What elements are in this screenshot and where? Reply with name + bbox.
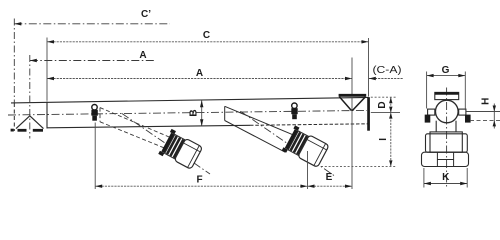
discharge deflector V left leg (16, 116, 30, 129)
bracket 2 ring (292, 103, 297, 108)
end view right lug (459, 109, 466, 115)
discharge box bottom left flange bar (18, 129, 27, 132)
end view motor inner box (430, 132, 462, 152)
dimension C' line (dash-dot, truncated) (14, 23, 170, 25)
svg-text:G: G (442, 65, 450, 76)
dimension I bottom arrow (389, 160, 392, 166)
inlet funnel right side (352, 97, 365, 111)
tube centerline (8, 110, 367, 115)
motor 1 console top line (dashed) (100, 108, 171, 138)
bracket 1 body (91, 110, 97, 116)
end view bottom box (422, 152, 469, 166)
end view left arm (435, 121, 437, 132)
svg-text:B: B (188, 109, 199, 116)
dimension F line (95, 185, 307, 187)
dimension B line (201, 100, 203, 126)
svg-text:C’: C’ (141, 9, 151, 20)
dimension G line (427, 75, 466, 77)
motor 2 console bottom line (225, 121, 286, 153)
tube bottom edge (right, dashed) (250, 124, 368, 126)
extension line tube right end (368, 38, 370, 97)
inlet funnel left side (339, 97, 351, 111)
dimension D/I vertical line (390, 97, 392, 166)
dimension D top arrow (389, 97, 392, 103)
bracket 1 stem (92, 116, 97, 121)
end view right bolt (465, 115, 471, 123)
discharge deflector V right leg (30, 116, 44, 129)
end view top cap heavy top edge (435, 92, 459, 95)
motor 1 console bottom line (dashed) (100, 122, 165, 149)
dimension I top arrow (389, 113, 392, 119)
dimension H top arrow (outside) (493, 106, 496, 112)
dimension H bottom reference line (dashed) (470, 119, 500, 121)
dimension H top reference line (467, 111, 500, 113)
dimension F right arrow (301, 185, 308, 188)
dimension D bottom arrow (389, 107, 392, 113)
extension line left edge (dash-dot, for C') (13, 19, 15, 104)
svg-text:F: F (196, 175, 202, 186)
dimension G right extension (464, 72, 466, 109)
dimension G left extension (426, 72, 428, 109)
dimension C line (47, 41, 369, 43)
svg-text:C: C (203, 30, 210, 41)
end view left bolt (425, 115, 431, 123)
end view motor outer box (426, 134, 468, 152)
dimension C right arrow (362, 40, 369, 43)
dimension H vertical line (493, 104, 495, 129)
svg-text:D: D (377, 101, 388, 108)
extension line inlet centerline lower (351, 97, 353, 189)
motor 1 axis (dash-dot) (122, 114, 210, 175)
discharge box bottom right flange bar (33, 129, 43, 132)
bracket 2 stem (292, 114, 297, 119)
dimension A' arrow (30, 59, 37, 62)
bracket 1 ring (92, 105, 97, 110)
dimension (C-A) arrow (outside, pointing left) (369, 77, 376, 80)
dimension E right arrow (345, 185, 352, 188)
end view centerline vertical (dash-dot) (446, 88, 448, 188)
end view bottom box inner left line (436, 152, 438, 166)
end view bottom box inner horizontal (437, 159, 453, 161)
dimension A right arrow (345, 77, 352, 80)
dimension H bottom arrow (outside) (493, 120, 496, 126)
svg-text:A: A (196, 68, 203, 79)
dimension B bottom arrow (200, 119, 203, 126)
end view top cap (435, 92, 459, 99)
motor 2 axis (dash-dot) (240, 111, 334, 175)
extension line bracket 1 center (94, 123, 96, 190)
end view left lug (428, 109, 435, 115)
dimension K right arrow (460, 182, 467, 185)
dimension A left arrow (47, 77, 54, 80)
extension line discharge centerline (dash-dot, for A') (29, 55, 31, 139)
svg-text:E: E (326, 172, 333, 183)
end view bottom box inner right line (453, 152, 455, 166)
dimension B top arrow (200, 100, 203, 107)
outlet top reference line (dotted) (371, 96, 397, 98)
extension line tube left end (46, 38, 48, 101)
dimension G left arrow (427, 74, 434, 77)
motor 1 console edge (dashed) (99, 108, 101, 122)
dimension K right extension (466, 168, 468, 188)
svg-text:(C-A): (C-A) (373, 65, 402, 76)
dimension F left arrow (95, 185, 102, 188)
vibration motor 1 (158, 129, 203, 171)
dimension E line (308, 185, 353, 187)
discharge box left edge (dashed) (13, 103, 15, 131)
tube right end cap (heavy) (367, 97, 370, 131)
dimension C left arrow (47, 40, 54, 43)
tube left end cap (46, 102, 48, 129)
dimension K left extension (423, 168, 425, 188)
motor 2 console edge (224, 106, 226, 120)
dimension K left arrow (424, 182, 431, 185)
outlet mid reference line (371, 112, 400, 114)
dimension A line (47, 78, 352, 80)
dimension C' arrow (14, 22, 21, 25)
tube top edge (11, 97, 369, 103)
end view right arm (455, 121, 457, 132)
end view tube circle (436, 100, 459, 123)
vibration motor 2 (282, 125, 330, 169)
motor 2 console top line (225, 106, 295, 135)
bottom reference line of motors (dotted) (321, 165, 396, 167)
dimension (C-A) line (369, 78, 404, 80)
svg-text:A: A (139, 50, 146, 61)
bracket 2 body (291, 108, 297, 114)
discharge box left flange end (11, 129, 14, 132)
dimension K line (424, 183, 467, 185)
dimension A' line (dash-dot, truncated) (30, 60, 156, 62)
svg-text:I: I (378, 138, 389, 141)
extension line motor 2 center (307, 151, 309, 189)
extension line inlet centerline upper (351, 58, 353, 95)
svg-text:K: K (442, 172, 450, 183)
svg-text:H: H (480, 98, 491, 105)
dimension E left arrow (308, 185, 315, 188)
dimension G right arrow (458, 74, 465, 77)
inlet funnel top bar (339, 94, 367, 97)
tube bottom edge (left, solid) (47, 125, 250, 128)
